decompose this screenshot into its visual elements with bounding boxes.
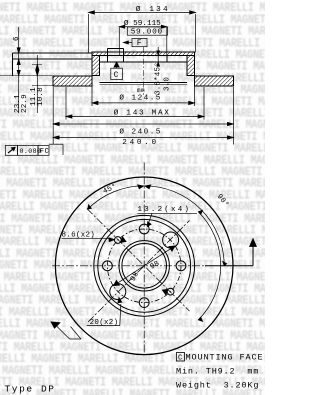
svg-text:F: F: [137, 39, 142, 48]
svg-text:C: C: [114, 71, 119, 80]
svg-text:0.080: 0.080: [20, 148, 42, 155]
svg-text:Min. TH9.2 mm: Min. TH9.2 mm: [176, 367, 259, 377]
svg-text:10.8: 10.8: [37, 87, 45, 106]
svg-text:FC: FC: [40, 148, 50, 156]
svg-text:20(x2): 20(x2): [90, 319, 119, 327]
svg-text:Ø 143 MAX: Ø 143 MAX: [114, 108, 171, 117]
svg-text:59.000: 59.000: [131, 28, 163, 36]
svg-text:22.9: 22.9: [21, 94, 29, 113]
svg-text:Ø 134: Ø 134: [136, 5, 170, 14]
svg-text:mm: mm: [137, 87, 145, 94]
svg-text:Ø 240.5: Ø 240.5: [119, 128, 161, 137]
svg-text:C: C: [178, 355, 182, 363]
svg-text:13.2(x4): 13.2(x4): [138, 206, 192, 214]
svg-text:Ø 59.115: Ø 59.115: [124, 19, 161, 28]
svg-text:8.6(x2): 8.6(x2): [62, 232, 96, 240]
svg-text:3.0: 3.0: [164, 77, 172, 91]
svg-text:240.0: 240.0: [122, 139, 159, 147]
svg-text:Type DP: Type DP: [5, 383, 56, 394]
svg-text:MOUNTING FACE: MOUNTING FACE: [186, 353, 264, 363]
svg-text:3.8*45°: 3.8*45°: [154, 62, 163, 95]
svg-text:6: 6: [13, 36, 21, 41]
svg-text:Weight 3.20Kg: Weight 3.20Kg: [176, 381, 259, 391]
